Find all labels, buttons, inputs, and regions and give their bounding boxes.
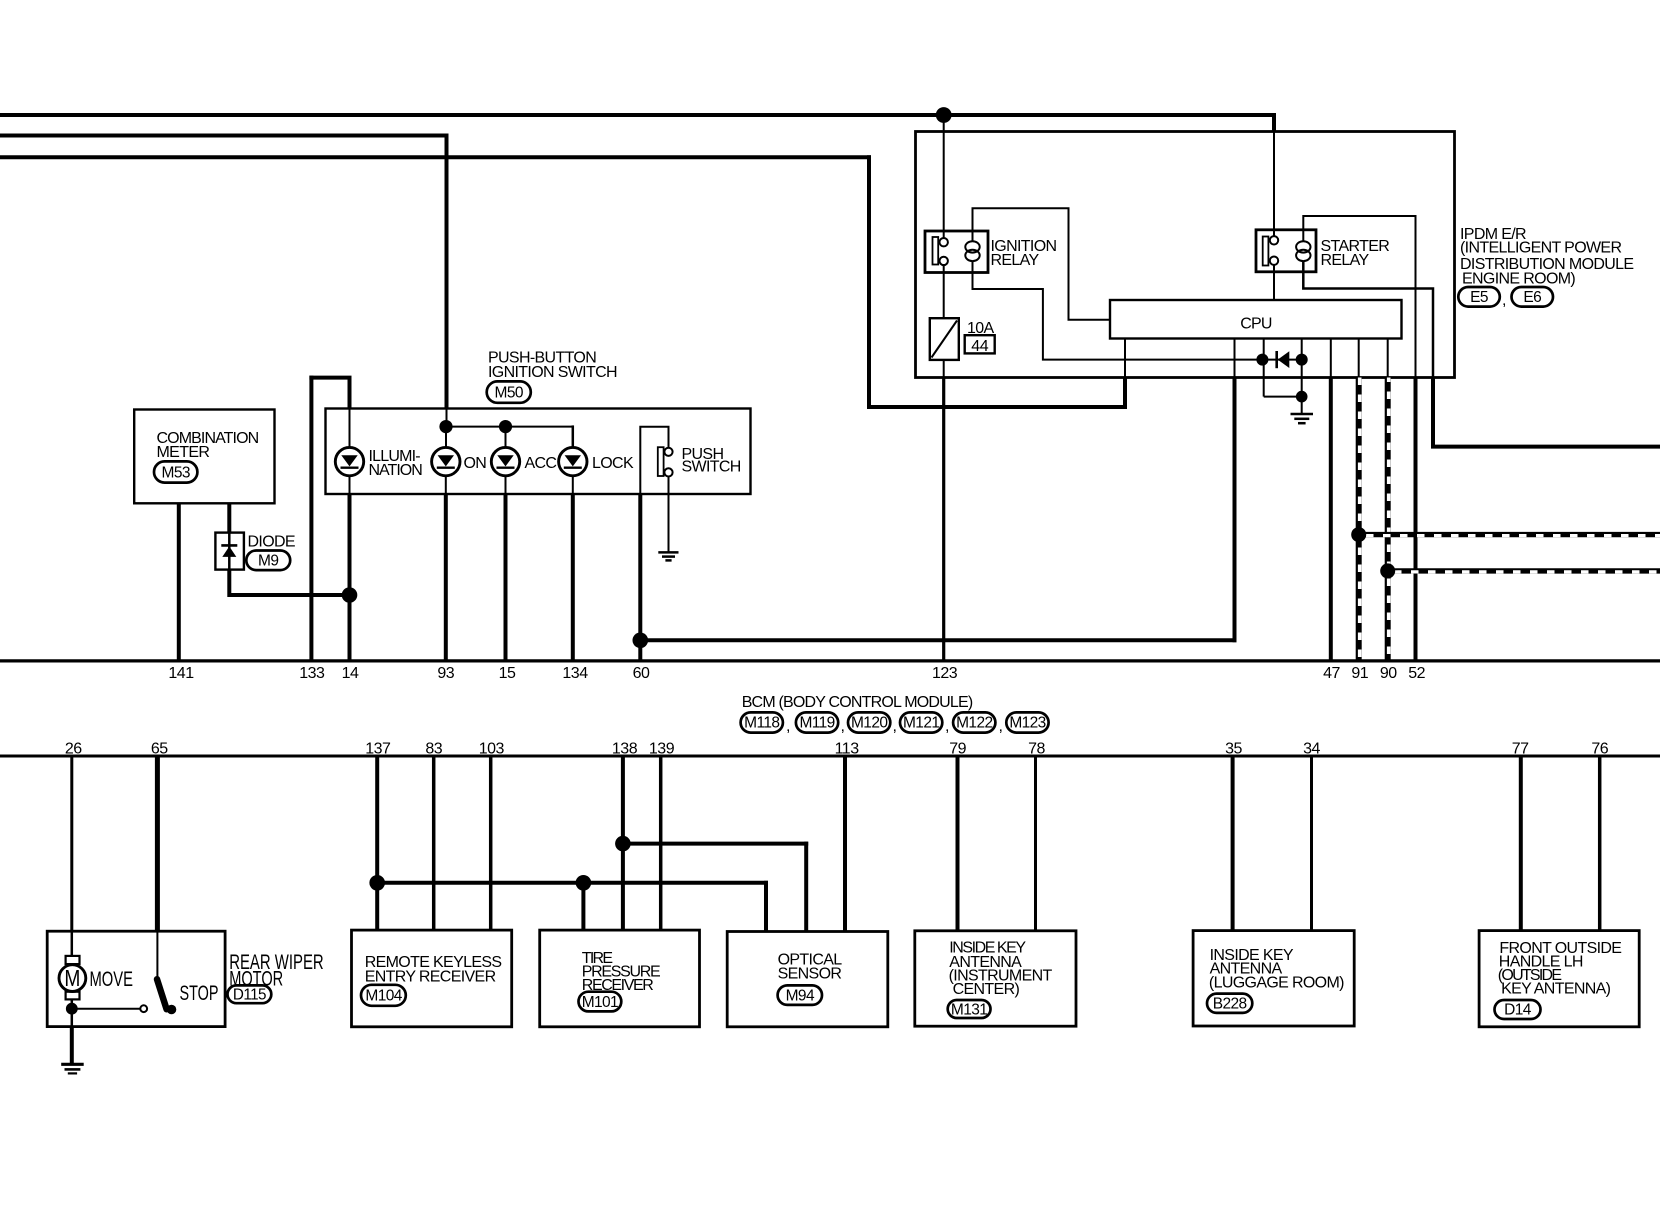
svg-text:METER: METER [157,444,210,461]
svg-text:M94: M94 [786,987,815,1004]
svg-text:RELAY: RELAY [991,252,1040,269]
svg-text:E6: E6 [1523,289,1541,306]
svg-text:SWITCH: SWITCH [682,459,741,476]
svg-text:65: 65 [151,740,168,757]
svg-text:141: 141 [168,665,194,682]
svg-text:47: 47 [1323,665,1340,682]
svg-text:,: , [1502,292,1506,309]
svg-text:,: , [999,718,1003,735]
svg-text:(LUGGAGE ROOM): (LUGGAGE ROOM) [1209,975,1344,992]
svg-text:113: 113 [835,740,860,757]
svg-text:KEY ANTENNA): KEY ANTENNA) [1501,981,1611,998]
svg-text:M119: M119 [799,715,834,732]
svg-text:SENSOR: SENSOR [778,966,842,983]
svg-text:M: M [64,965,80,991]
svg-text:M50: M50 [495,385,524,402]
svg-text:133: 133 [299,665,325,682]
svg-text:RELAY: RELAY [1321,252,1370,269]
svg-text:14: 14 [342,665,359,682]
svg-text:LOCK: LOCK [592,455,634,472]
svg-text:78: 78 [1028,740,1045,757]
svg-text:M104: M104 [365,988,402,1005]
svg-text:35: 35 [1225,740,1242,757]
svg-text:,: , [945,718,949,735]
svg-text:34: 34 [1303,740,1320,757]
svg-text:M101: M101 [582,994,618,1011]
svg-text:139: 139 [649,740,675,757]
svg-text:15: 15 [499,665,516,682]
svg-text:MOVE: MOVE [90,968,134,991]
svg-text:D14: D14 [1504,1002,1532,1019]
svg-text:M120: M120 [851,715,888,732]
svg-text:91: 91 [1351,665,1368,682]
svg-text:M121: M121 [903,715,939,732]
svg-text:(INTELLIGENT POWER: (INTELLIGENT POWER [1460,240,1621,257]
svg-text:137: 137 [365,740,391,757]
svg-text:44: 44 [971,338,988,355]
svg-text:M131: M131 [951,1001,987,1018]
svg-text:60: 60 [633,665,650,682]
svg-text:,: , [841,718,845,735]
svg-text:ACC: ACC [525,455,557,472]
svg-text:26: 26 [65,740,82,757]
svg-text:123: 123 [932,665,958,682]
svg-text:M118: M118 [744,715,779,732]
svg-text:STOP: STOP [180,982,219,1005]
svg-text:BCM (BODY CONTROL MODULE): BCM (BODY CONTROL MODULE) [742,694,973,711]
svg-text:90: 90 [1380,665,1397,682]
svg-text:79: 79 [949,740,966,757]
svg-text:ENGINE ROOM): ENGINE ROOM) [1462,271,1575,288]
svg-text:103: 103 [479,740,505,757]
svg-text:IGNITION SWITCH: IGNITION SWITCH [488,364,617,381]
svg-text:NATION: NATION [369,462,423,479]
svg-text:ENTRY RECEIVER: ENTRY RECEIVER [365,969,496,986]
svg-text:M53: M53 [162,464,190,481]
svg-text:CPU: CPU [1240,315,1272,332]
svg-text:,: , [893,718,897,735]
svg-text:M9: M9 [258,553,278,570]
svg-text:M122: M122 [956,715,992,732]
svg-text:M123: M123 [1009,715,1045,732]
svg-text:,: , [786,718,790,735]
svg-text:138: 138 [612,740,638,757]
svg-text:CENTER): CENTER) [953,981,1020,998]
svg-text:83: 83 [425,740,442,757]
svg-text:E5: E5 [1470,289,1488,306]
svg-text:77: 77 [1512,740,1529,757]
svg-text:B228: B228 [1213,995,1247,1012]
svg-text:134: 134 [562,665,588,682]
svg-text:DIODE: DIODE [248,533,295,550]
svg-text:76: 76 [1591,740,1608,757]
svg-text:ON: ON [464,455,487,472]
svg-text:93: 93 [437,665,454,682]
svg-text:D115: D115 [233,987,267,1004]
svg-text:52: 52 [1408,665,1425,682]
